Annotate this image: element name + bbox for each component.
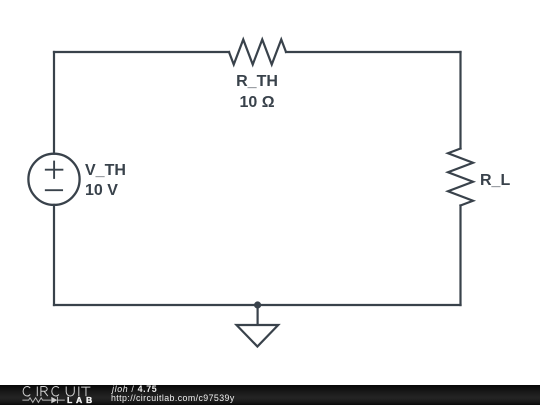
logo letter I: [36, 387, 38, 397]
V_TH plus sign: [46, 162, 63, 178]
label R_TH name: [237, 74, 279, 90]
resistor R_TH (zigzag): [229, 40, 286, 65]
wire right vertical lower (R_L to corner): [459, 206, 461, 306]
label R_TH value 10 ohm: [240, 95, 275, 111]
wire left vertical lower (V_TH to corner): [53, 205, 55, 305]
wire top-right horizontal (R_TH to corner): [286, 51, 461, 53]
node junction dot: [254, 301, 261, 308]
footer bar: [0, 385, 540, 405]
label V_TH name: [85, 163, 126, 179]
logo wire with resistor squiggle: [22, 398, 51, 403]
ground stub wire: [257, 305, 259, 325]
logo diode symbol: [51, 397, 57, 403]
resistor R_L (zigzag): [448, 149, 473, 206]
label V_TH value 10 V: [85, 183, 118, 199]
wire bottom horizontal: [54, 304, 461, 306]
label R_L name: [480, 173, 510, 189]
footer logo svg: [0, 384, 110, 405]
footer text url: [111, 394, 235, 403]
wire left vertical upper (corner to V_TH): [53, 52, 55, 154]
wire right vertical upper (corner to R_L): [459, 52, 461, 149]
V_TH minus sign: [46, 189, 62, 191]
logo letter I: [78, 387, 80, 397]
voltage source V_TH circle: [28, 154, 79, 205]
logo letter C: [52, 386, 59, 396]
logo LAB wordmark: [67, 396, 96, 405]
footer text author / score: [112, 385, 157, 394]
wire top-left horizontal (corner to R_TH): [54, 51, 229, 53]
ground triangle: [237, 325, 279, 347]
logo letter C: [23, 386, 30, 396]
logo letter R: [41, 387, 48, 397]
logo letter T: [81, 387, 90, 396]
logo letter U: [66, 387, 74, 397]
